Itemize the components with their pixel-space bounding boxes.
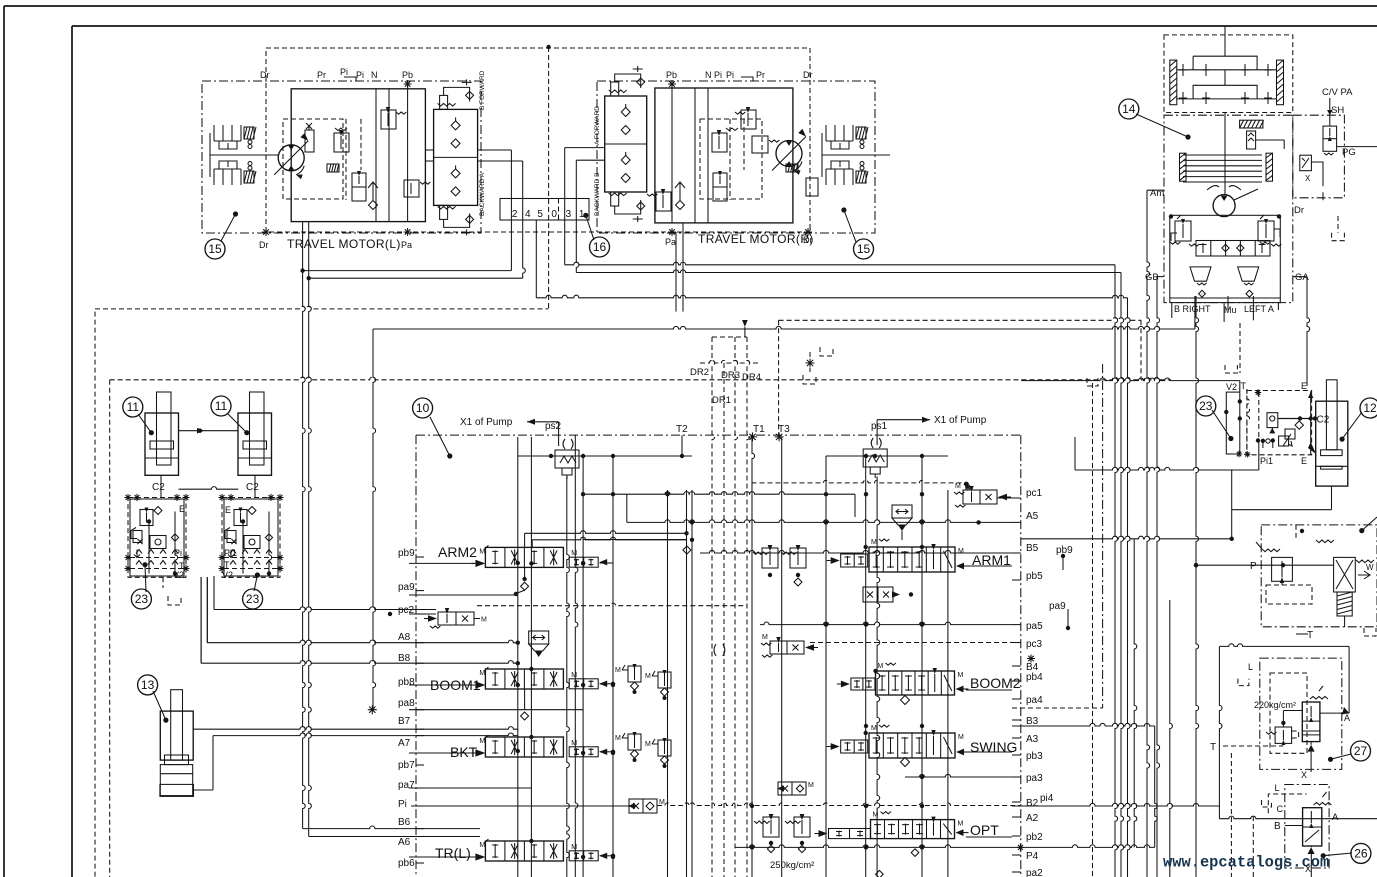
holding valve 23 top right: V2 plate bbox=[1226, 392, 1240, 454]
svg-text:V2: V2 bbox=[173, 570, 184, 580]
wire pa5 row bbox=[760, 622, 1012, 625]
right group row links bbox=[966, 565, 1012, 567]
wire pc3 row bbox=[810, 642, 1020, 644]
cylinder 13 bbox=[171, 690, 183, 760]
valve OPT bbox=[871, 820, 955, 839]
swing brake release piston bbox=[1240, 120, 1263, 128]
svg-text:M: M bbox=[571, 844, 577, 851]
svg-text:P: P bbox=[1250, 561, 1257, 572]
rcv reducing valve bbox=[1272, 557, 1293, 581]
valve ARM1 sub bbox=[863, 587, 893, 602]
svg-text:DR1: DR1 bbox=[712, 395, 731, 406]
svg-text:TRAVEL MOTOR(R): TRAVEL MOTOR(R) bbox=[698, 232, 814, 246]
svg-text:X: X bbox=[1301, 770, 1307, 780]
svg-text:pb2: pb2 bbox=[1026, 832, 1043, 843]
svg-text:Pi: Pi bbox=[726, 70, 734, 80]
svg-text:T: T bbox=[1241, 381, 1247, 391]
holding valve 23: E line bbox=[1310, 391, 1312, 455]
svg-text:DR2: DR2 bbox=[690, 367, 709, 378]
svg-text:A7: A7 bbox=[398, 738, 411, 749]
svg-text:T3: T3 bbox=[778, 424, 790, 435]
wire: B6 line to TR(L) bbox=[303, 826, 480, 829]
svg-text:V2: V2 bbox=[1226, 382, 1237, 392]
valve ARM2 bbox=[485, 547, 563, 567]
wire: pump line to swing bbox=[373, 326, 1195, 329]
svg-text:TRAVEL MOTOR(L): TRAVEL MOTOR(L) bbox=[287, 237, 401, 251]
drain brackets bbox=[806, 359, 815, 368]
callout 15 left bbox=[221, 214, 236, 241]
svg-text:M: M bbox=[871, 725, 877, 732]
valve Pi row bbox=[629, 799, 657, 813]
wire pb9 row bbox=[409, 562, 474, 564]
svg-text:BOOM1: BOOM1 bbox=[430, 677, 481, 693]
swing relief right bbox=[1258, 221, 1274, 241]
svg-text:B3: B3 bbox=[1026, 716, 1039, 727]
svg-text:M: M bbox=[615, 667, 621, 674]
holding valve 23: diamond bbox=[1295, 421, 1303, 429]
svg-text:B RIGHT: B RIGHT bbox=[1174, 304, 1211, 314]
travel motor L: hatch block bbox=[327, 164, 339, 172]
svg-text:A8: A8 bbox=[398, 632, 411, 643]
svg-text:pa9: pa9 bbox=[398, 582, 415, 593]
svg-text:pb4: pb4 bbox=[1026, 672, 1043, 683]
holding valve 23: Pi1 drop bbox=[1258, 440, 1260, 470]
svg-text:Pb: Pb bbox=[402, 70, 413, 80]
svg-text:www.epcatalogs.com: www.epcatalogs.com bbox=[1163, 854, 1329, 872]
svg-text:M: M bbox=[958, 672, 964, 679]
wire: mid rail to swing bbox=[536, 295, 1127, 298]
travel motor L: solenoid valve bbox=[352, 173, 366, 201]
svg-text:B6: B6 bbox=[398, 817, 411, 828]
supply rail bbox=[518, 455, 692, 457]
svg-text:M: M bbox=[958, 734, 964, 741]
wire Pi row bbox=[411, 805, 629, 807]
rcv main valve bbox=[1334, 557, 1356, 592]
svg-text:BKT: BKT bbox=[450, 744, 478, 760]
svg-text:M: M bbox=[571, 740, 577, 747]
callout 27 bbox=[1331, 754, 1352, 759]
travel motor L: relief A bbox=[334, 133, 349, 152]
svg-text:C: C bbox=[1277, 804, 1284, 814]
wire A7 row bbox=[193, 789, 213, 791]
dashed break symbol bbox=[714, 644, 725, 656]
swing brake plates bbox=[1183, 154, 1262, 156]
svg-text:X: X bbox=[1305, 174, 1311, 183]
travel motor R: small box bbox=[806, 178, 818, 196]
svg-text:Pi: Pi bbox=[174, 548, 182, 558]
swing shaft bbox=[1224, 113, 1226, 196]
swing drain bracket bbox=[1337, 216, 1339, 233]
travel motor R: gearbox case bbox=[597, 81, 875, 233]
pilot cluster OPT bbox=[763, 817, 779, 837]
holding valve 23 right bbox=[222, 498, 280, 578]
valve BOOM2 bbox=[876, 671, 955, 695]
valve BKT bbox=[485, 737, 563, 757]
svg-text:pa9: pa9 bbox=[1049, 601, 1066, 612]
callout 10 bbox=[430, 417, 450, 456]
travel motor R: relief A bbox=[712, 133, 727, 152]
valve ARM1 bbox=[869, 547, 955, 572]
svg-text:ARM2: ARM2 bbox=[438, 544, 477, 560]
swing SH valve bbox=[1323, 126, 1337, 151]
travel motor R: check bbox=[675, 182, 685, 200]
svg-text:pi4: pi4 bbox=[1040, 793, 1054, 804]
svg-text:OPT: OPT bbox=[970, 822, 999, 838]
dashed enclosure upper bbox=[95, 306, 549, 309]
svg-text:5: 5 bbox=[537, 209, 543, 220]
T return rails bbox=[752, 437, 755, 877]
travel motor L: relief B bbox=[381, 110, 396, 129]
valve BOOM1 bbox=[485, 669, 563, 689]
svg-text:M: M bbox=[878, 663, 884, 670]
svg-text:pb5: pb5 bbox=[1026, 571, 1043, 582]
valve 27 A-feed loop bbox=[1219, 644, 1349, 647]
svg-text:Mu: Mu bbox=[1224, 305, 1237, 315]
wire: cylinder12 drop bbox=[1331, 486, 1333, 510]
callout 11 left bbox=[138, 414, 151, 433]
svg-text:pa7: pa7 bbox=[398, 780, 415, 791]
svg-text:A: A bbox=[1332, 812, 1339, 823]
svg-text:26: 26 bbox=[1354, 847, 1368, 861]
wire: bundle crossers bbox=[1021, 378, 1240, 381]
wire B7 row from cyl13 bbox=[193, 727, 518, 730]
wire pa7 row bbox=[409, 787, 531, 789]
svg-text:M: M bbox=[958, 548, 964, 555]
svg-text:M: M bbox=[615, 735, 621, 742]
svg-text:X1 of Pump: X1 of Pump bbox=[934, 415, 987, 426]
svg-text:L: L bbox=[1275, 783, 1280, 793]
svg-text:23: 23 bbox=[1199, 399, 1213, 413]
wire pb6 row bbox=[409, 856, 474, 858]
DR lines bbox=[712, 337, 715, 877]
svg-text:M: M bbox=[571, 672, 577, 679]
svg-text:15: 15 bbox=[857, 242, 871, 256]
svg-text:Dr: Dr bbox=[1294, 205, 1304, 216]
svg-text:23: 23 bbox=[135, 592, 149, 606]
svg-text:Pa: Pa bbox=[665, 237, 676, 247]
wire: pc1 pilot dashed bbox=[752, 480, 967, 483]
valve pc1 bbox=[963, 490, 997, 504]
wire: supply to funnel bbox=[583, 492, 855, 495]
svg-text:3: 3 bbox=[566, 209, 572, 220]
svg-text:P4: P4 bbox=[1026, 851, 1039, 862]
svg-text:M: M bbox=[645, 673, 651, 680]
svg-text:M: M bbox=[873, 812, 879, 819]
remote control valve box bbox=[1261, 525, 1377, 627]
checkM pair BKT bbox=[628, 734, 641, 750]
svg-text:pb9: pb9 bbox=[1056, 545, 1073, 556]
drain bracket left bbox=[162, 577, 164, 588]
travel motor L: reduction gear bbox=[209, 133, 211, 177]
swing port lines bbox=[1157, 276, 1164, 278]
travel motor L: relief C bbox=[404, 180, 419, 197]
swing motor symbol bbox=[1213, 195, 1235, 217]
wire: B3 loop to P4 bbox=[1012, 723, 1155, 726]
wire: right verticals bbox=[1170, 600, 1173, 877]
svg-text:M: M bbox=[958, 821, 964, 828]
valve 27 dash-dot box bbox=[1260, 658, 1342, 769]
wire pa3 row bbox=[905, 774, 1012, 777]
funnel right bbox=[892, 505, 912, 518]
wire pc2 row from block23 bbox=[213, 576, 215, 610]
travel motor L: outer dashed box bbox=[266, 48, 810, 232]
svg-text:pb3: pb3 bbox=[1026, 751, 1043, 762]
valve SWING bbox=[869, 733, 955, 758]
wire: swing LEFT A down bbox=[1252, 296, 1254, 320]
svg-text:pc1: pc1 bbox=[1026, 488, 1043, 499]
travel motor L: main box bbox=[291, 89, 425, 222]
swing cushion valve B bbox=[1190, 267, 1211, 281]
dashed enclosure lower bbox=[110, 377, 1171, 380]
svg-text:Pb: Pb bbox=[666, 70, 677, 80]
valve pc3 bbox=[770, 641, 804, 654]
svg-text:DR3: DR3 bbox=[721, 370, 740, 381]
junction dots on rails bbox=[864, 454, 868, 458]
callout 23 right bbox=[254, 575, 257, 591]
svg-text:B FORWARD: B FORWARD bbox=[479, 70, 486, 110]
svg-text:BOOM2: BOOM2 bbox=[970, 675, 1021, 691]
valve 27 main bbox=[1302, 702, 1320, 742]
svg-text:pa4: pa4 bbox=[1026, 695, 1043, 706]
swing motor case bbox=[1164, 115, 1293, 302]
wire: travel output buses bbox=[302, 222, 304, 271]
svg-text:LEFT A: LEFT A bbox=[1244, 304, 1274, 314]
svg-text:1: 1 bbox=[579, 209, 585, 220]
svg-text:pb6: pb6 bbox=[398, 858, 415, 869]
callout 14 bbox=[1136, 114, 1188, 137]
travel motor R: hatch block bbox=[786, 164, 798, 172]
valve 27 X port bbox=[1308, 745, 1315, 752]
svg-text:M: M bbox=[481, 617, 487, 624]
swing Mu line bbox=[1223, 303, 1225, 322]
svg-text:C2: C2 bbox=[246, 482, 259, 493]
svg-text:M: M bbox=[955, 483, 961, 490]
svg-text:E: E bbox=[1301, 381, 1307, 391]
travel motor L: counterbalance block bbox=[434, 109, 478, 205]
svg-text:23: 23 bbox=[246, 592, 260, 606]
svg-text:0: 0 bbox=[551, 209, 557, 220]
wire A8 row bbox=[206, 577, 208, 643]
svg-text:C2: C2 bbox=[1317, 415, 1330, 426]
wire B5 row bbox=[700, 550, 1021, 553]
pump ps1 bbox=[871, 438, 881, 448]
travel motor R: relief C bbox=[741, 110, 756, 129]
svg-text:TR(L): TR(L) bbox=[435, 845, 471, 861]
swing works box bbox=[1170, 215, 1281, 302]
valve 26 ports bbox=[1285, 825, 1303, 827]
svg-text:M: M bbox=[571, 550, 577, 557]
dashed drains bottom right bbox=[1252, 816, 1254, 877]
svg-text:GA: GA bbox=[1295, 272, 1309, 283]
svg-text:10: 10 bbox=[416, 401, 430, 415]
svg-text:4: 4 bbox=[525, 209, 531, 220]
wire: drain dashed line bbox=[779, 318, 1141, 321]
svg-text:T: T bbox=[1210, 742, 1216, 753]
pump ps2 bbox=[563, 439, 573, 449]
swing relief left bbox=[1175, 221, 1191, 241]
svg-text:27: 27 bbox=[1354, 744, 1368, 758]
travel motor R: counterbalance block bbox=[605, 96, 647, 192]
svg-text:M: M bbox=[645, 741, 651, 748]
svg-text:12: 12 bbox=[1363, 401, 1377, 415]
svg-text:E: E bbox=[179, 504, 185, 514]
svg-text:220kg/cm²: 220kg/cm² bbox=[1254, 700, 1296, 710]
callout 15 right bbox=[844, 210, 856, 242]
valve pc2 bbox=[438, 612, 474, 625]
svg-text:Dr: Dr bbox=[260, 70, 270, 80]
callout 26 bbox=[1323, 853, 1352, 856]
callout 23 left bbox=[145, 565, 146, 592]
svg-text:M: M bbox=[871, 539, 877, 546]
svg-text:SWING: SWING bbox=[970, 739, 1017, 755]
checkM pair BOOM1 bbox=[628, 666, 641, 682]
holding valve 23 left bbox=[128, 498, 186, 578]
MCV internal rails bbox=[517, 437, 519, 877]
travel motor L: pilot piston bbox=[305, 130, 314, 152]
svg-text:13: 13 bbox=[141, 678, 155, 692]
holding valve 23: relief bbox=[1279, 436, 1289, 446]
callout 13 bbox=[153, 691, 166, 720]
valve 26 dash-dot box bbox=[1285, 785, 1329, 869]
svg-text:T: T bbox=[224, 560, 230, 570]
svg-text:11: 11 bbox=[215, 399, 228, 413]
callout 16 bbox=[586, 215, 594, 240]
wire pb7 row bbox=[409, 752, 474, 754]
travel motor R: relief B bbox=[656, 192, 671, 211]
svg-text:pa3: pa3 bbox=[1026, 773, 1043, 784]
wires from blocks down bbox=[206, 577, 208, 642]
swing cushion valve A bbox=[1238, 267, 1259, 281]
svg-text:Pa: Pa bbox=[401, 240, 412, 250]
svg-text:N Pi: N Pi bbox=[705, 70, 722, 80]
wire: travel L outputs down bbox=[477, 149, 511, 151]
funnel mid bbox=[529, 631, 549, 644]
svg-text:pb7: pb7 bbox=[398, 760, 415, 771]
svg-text:A6: A6 bbox=[398, 837, 411, 848]
svg-text:B8: B8 bbox=[398, 653, 411, 664]
svg-text:Pi: Pi bbox=[398, 799, 407, 810]
svg-text:Pr: Pr bbox=[317, 70, 326, 80]
dashed verticals right of MCV bbox=[1092, 383, 1094, 877]
travel motor L: inner pilot lines bbox=[375, 89, 377, 222]
svg-text:Am: Am bbox=[1150, 188, 1164, 199]
swing SH sub-enclosure bbox=[1293, 115, 1345, 198]
travel motor R: inner pilot lines bbox=[671, 81, 673, 223]
svg-text:A FORWARD: A FORWARD bbox=[594, 106, 601, 145]
svg-text:T: T bbox=[1307, 630, 1313, 641]
callout 23 right top bbox=[1212, 410, 1231, 439]
wire: B2 line to valve 26 bbox=[1012, 803, 1219, 806]
MCV dash-dot boundary bbox=[416, 434, 1021, 436]
swing gearbox bbox=[1164, 35, 1293, 113]
svg-text:Dr: Dr bbox=[259, 240, 269, 250]
travel motor R: reduction gear bbox=[821, 133, 823, 177]
wire: swing Am line down bbox=[1147, 190, 1150, 877]
wire: swing GA line down bbox=[1307, 277, 1310, 386]
svg-text:SH: SH bbox=[1331, 105, 1344, 116]
svg-text:A: A bbox=[1344, 713, 1350, 723]
wire pa9 row bbox=[409, 594, 516, 596]
cylinder 11 left bbox=[157, 392, 172, 465]
svg-text:W: W bbox=[1366, 563, 1374, 572]
svg-text:BACKWARD A: BACKWARD A bbox=[479, 172, 486, 216]
svg-text:A5: A5 bbox=[1026, 511, 1039, 522]
travel motor R: main box bbox=[655, 88, 793, 223]
svg-text:A3: A3 bbox=[1026, 734, 1039, 745]
travel motor R: drain lines down bbox=[675, 232, 677, 312]
wire cyl link top bbox=[179, 430, 239, 432]
svg-text:DR4: DR4 bbox=[742, 372, 761, 383]
svg-text:T1: T1 bbox=[753, 424, 765, 435]
svg-text:N: N bbox=[371, 70, 378, 80]
holding valve 23: pilot row bbox=[1256, 438, 1260, 442]
svg-text:M: M bbox=[762, 634, 768, 641]
holding valve 23 top right: dashed pilot box bbox=[1247, 391, 1312, 455]
travel motor R: solenoid valve bbox=[713, 173, 727, 201]
svg-text:Pi1: Pi1 bbox=[1260, 456, 1273, 466]
wire BOOM1 sec link bbox=[600, 683, 613, 685]
wire BKT sec link bbox=[600, 751, 613, 753]
holding valve 23: C2 line bbox=[1278, 418, 1316, 420]
svg-text:B5: B5 bbox=[1026, 543, 1039, 554]
svg-text:pb9: pb9 bbox=[398, 548, 415, 559]
valve 27 pilot reducing valve bbox=[1275, 727, 1292, 743]
border frame bbox=[4, 5, 1377, 7]
wire pa8 row bbox=[409, 709, 583, 711]
wire: A6 line to TR(L) bbox=[309, 836, 480, 838]
svg-text:Pi: Pi bbox=[340, 67, 348, 77]
wire TRL sec link bbox=[600, 855, 613, 857]
svg-text:pa2: pa2 bbox=[1026, 868, 1043, 877]
swing makeup block bbox=[1196, 241, 1270, 257]
travel motor L: gearbox case bbox=[202, 81, 481, 233]
svg-text:BACKWARD B: BACKWARD B bbox=[594, 173, 601, 216]
svg-text:ps1: ps1 bbox=[871, 421, 888, 432]
svg-text:16: 16 bbox=[593, 240, 607, 254]
svg-text:pa8: pa8 bbox=[398, 698, 415, 709]
svg-text:GB: GB bbox=[1145, 272, 1159, 283]
svg-text:L: L bbox=[1248, 662, 1253, 672]
svg-text:Pi: Pi bbox=[356, 70, 364, 80]
rcv spring top bbox=[1316, 540, 1334, 543]
svg-text:A2: A2 bbox=[1026, 813, 1039, 824]
pilot port number box bbox=[500, 199, 589, 221]
svg-text:B7: B7 bbox=[398, 716, 411, 727]
wire cyl link bottom bbox=[179, 487, 239, 490]
svg-text:pa5: pa5 bbox=[1026, 621, 1043, 632]
travel motor R: pilot valve bbox=[752, 136, 768, 153]
svg-text:M: M bbox=[659, 799, 665, 806]
callout 12 bbox=[1342, 412, 1362, 439]
svg-text:pc3: pc3 bbox=[1026, 639, 1043, 650]
travel motor L: port ticks bbox=[262, 228, 270, 236]
wire pb8 row bbox=[409, 684, 474, 686]
dashed bracket above bbox=[1225, 365, 1237, 373]
wire: travel R outputs down bbox=[565, 147, 605, 149]
svg-text:14: 14 bbox=[1122, 102, 1136, 116]
travel motor R: motor symbol bbox=[776, 141, 802, 167]
svg-text:Pi1: Pi1 bbox=[224, 548, 237, 558]
svg-text:E: E bbox=[1301, 456, 1307, 466]
svg-text:X1 of Pump: X1 of Pump bbox=[460, 417, 513, 428]
swing PG valve bbox=[1300, 155, 1312, 171]
svg-text:V2: V2 bbox=[222, 570, 233, 580]
svg-text:M: M bbox=[808, 782, 814, 789]
svg-text:B: B bbox=[1274, 821, 1281, 832]
travel motor L: motor symbol bbox=[278, 145, 304, 171]
cylinder 12 bbox=[1326, 380, 1337, 450]
wire: ARM2 bypass top bbox=[524, 533, 526, 547]
